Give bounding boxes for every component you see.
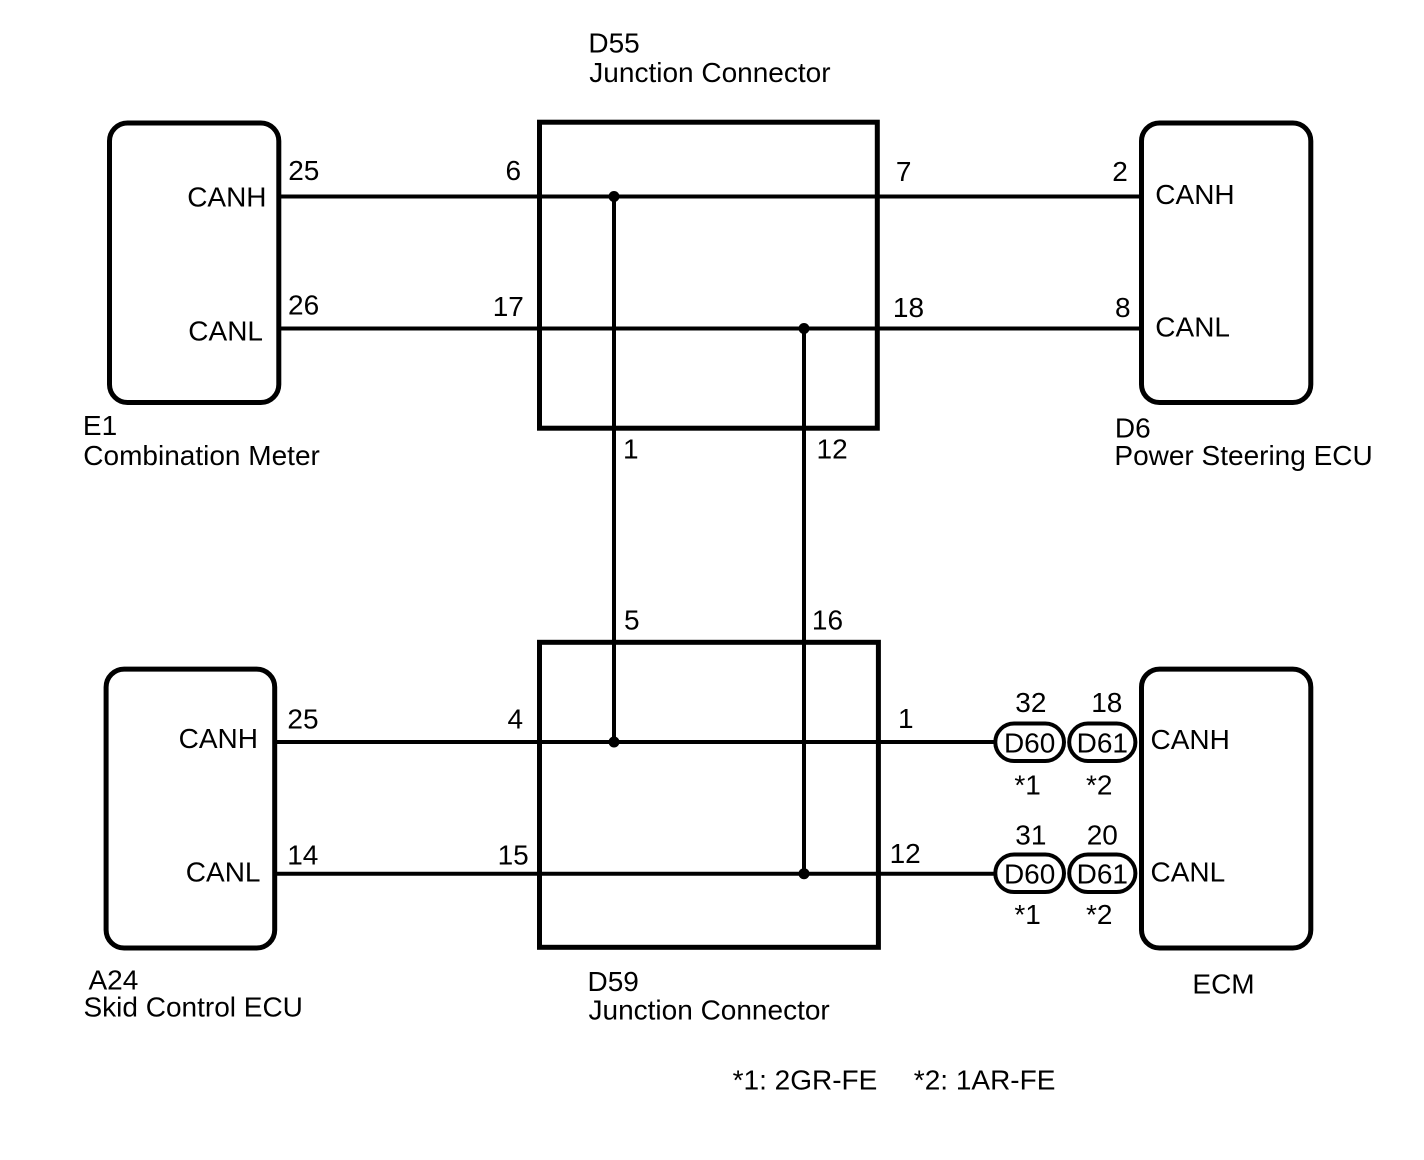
svg-text:ECM: ECM bbox=[1192, 969, 1254, 1000]
junction node D59 CANL bbox=[799, 868, 810, 879]
svg-text:12: 12 bbox=[817, 433, 848, 464]
svg-text:4: 4 bbox=[508, 703, 524, 734]
svg-text:D61: D61 bbox=[1077, 859, 1128, 890]
svg-text:Skid Control ECU: Skid Control ECU bbox=[84, 991, 303, 1022]
svg-text:CANH: CANH bbox=[1151, 724, 1230, 755]
svg-text:17: 17 bbox=[493, 291, 524, 322]
svg-text:CANH: CANH bbox=[1155, 179, 1234, 210]
svg-text:32: 32 bbox=[1015, 687, 1046, 718]
connector oval D61 (CANL, *2) bbox=[1069, 855, 1135, 893]
junction node D55 CANL bbox=[799, 323, 810, 334]
connector oval D61 (CANH, *2) bbox=[1069, 724, 1135, 762]
svg-text:D55: D55 bbox=[588, 28, 639, 59]
wire CANH A24-D59-D60 bbox=[277, 740, 995, 744]
wire CANL A24-D59-D60 bbox=[277, 872, 995, 876]
wire CANH E1-D55-D6 bbox=[281, 195, 1139, 199]
svg-text:18: 18 bbox=[1091, 687, 1122, 718]
svg-text:5: 5 bbox=[624, 604, 640, 635]
svg-text:CANH: CANH bbox=[187, 182, 266, 213]
svg-text:8: 8 bbox=[1115, 292, 1131, 323]
wire vertical D55 pin1 to D59 pin5 bbox=[612, 197, 616, 743]
svg-text:CANL: CANL bbox=[1151, 857, 1226, 888]
svg-text:CANL: CANL bbox=[188, 316, 263, 347]
svg-text:2: 2 bbox=[1112, 156, 1128, 187]
svg-text:CANL: CANL bbox=[186, 857, 261, 888]
svg-text:26: 26 bbox=[288, 290, 319, 321]
svg-text:12: 12 bbox=[890, 838, 921, 869]
svg-text:16: 16 bbox=[812, 604, 843, 635]
svg-text:CANL: CANL bbox=[1155, 312, 1230, 343]
wire CANL E1-D55-D6 bbox=[281, 327, 1139, 331]
svg-text:6: 6 bbox=[506, 155, 522, 186]
junction node D55 CANH bbox=[609, 191, 620, 202]
junction node D59 CANH bbox=[609, 737, 620, 748]
connector oval D60 (CANL, *1) bbox=[995, 855, 1064, 893]
connector ECM box bbox=[1142, 669, 1311, 948]
svg-text:20: 20 bbox=[1087, 820, 1118, 851]
junction connector D59 box bbox=[540, 642, 879, 947]
svg-text:Junction Connector: Junction Connector bbox=[589, 995, 830, 1026]
svg-text:*1: *1 bbox=[1014, 770, 1040, 801]
connector D6 Power Steering ECU box bbox=[1142, 123, 1311, 403]
svg-text:Power Steering ECU: Power Steering ECU bbox=[1114, 440, 1372, 471]
svg-text:25: 25 bbox=[287, 703, 318, 734]
svg-text:15: 15 bbox=[498, 839, 529, 870]
svg-text:D59: D59 bbox=[588, 966, 639, 997]
svg-text:D61: D61 bbox=[1077, 728, 1128, 759]
svg-text:D60: D60 bbox=[1004, 728, 1055, 759]
connector oval D60 (CANH, *1) bbox=[995, 724, 1064, 762]
svg-text:18: 18 bbox=[893, 292, 924, 323]
svg-text:31: 31 bbox=[1015, 820, 1046, 851]
wire vertical D55 pin12 to D59 pin16 bbox=[802, 329, 806, 874]
svg-text:Combination Meter: Combination Meter bbox=[83, 440, 320, 471]
svg-text:*2: *2 bbox=[1086, 899, 1112, 930]
svg-text:14: 14 bbox=[287, 839, 318, 870]
svg-text:E1: E1 bbox=[83, 410, 117, 441]
connector E1 Combination Meter box bbox=[110, 123, 279, 403]
svg-text:7: 7 bbox=[896, 156, 912, 187]
svg-text:Junction Connector: Junction Connector bbox=[589, 57, 830, 88]
svg-text:D6: D6 bbox=[1115, 413, 1151, 444]
junction connector D55 box bbox=[540, 122, 878, 428]
svg-text:D60: D60 bbox=[1004, 859, 1055, 890]
svg-text:CANH: CANH bbox=[179, 723, 258, 754]
svg-text:1: 1 bbox=[623, 433, 639, 464]
connector A24 Skid Control ECU box bbox=[106, 669, 275, 948]
svg-text:*1: *1 bbox=[1014, 899, 1040, 930]
svg-text:*1: 2GR-FE: *1: 2GR-FE bbox=[733, 1064, 878, 1095]
svg-text:*2: 1AR-FE: *2: 1AR-FE bbox=[914, 1064, 1056, 1095]
svg-text:1: 1 bbox=[898, 703, 914, 734]
svg-text:25: 25 bbox=[288, 155, 319, 186]
svg-text:*2: *2 bbox=[1086, 770, 1112, 801]
